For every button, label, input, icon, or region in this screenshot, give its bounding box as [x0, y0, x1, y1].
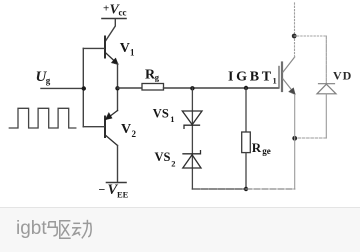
wire Rg to IGBT gate [164, 87, 279, 89]
wire output node to V2 emitter [117, 88, 119, 111]
label -VEE [99, 182, 129, 200]
wire V2 collector to -VEE [117, 146, 119, 183]
zener diode VS1 [182, 111, 202, 128]
node VD-emitter junction [292, 136, 297, 141]
svg-text:V: V [120, 41, 130, 56]
wire emitter lead down [294, 95, 296, 190]
wire collector to VD cathode [294, 35, 326, 37]
wire V1 emitter to output node [117, 64, 119, 88]
label +Vcc [103, 2, 127, 17]
svg-text:+: + [103, 2, 109, 14]
svg-text:1: 1 [273, 76, 277, 86]
label V1 [120, 41, 135, 58]
node output junction [115, 86, 119, 90]
svg-text:2: 2 [171, 158, 175, 168]
transistor V2 collector [106, 136, 118, 146]
VEE supply rail bar [107, 182, 127, 184]
wire collector lead up [294, 2, 296, 57]
node collector junction [292, 34, 297, 39]
wire emitter return rail right [246, 188, 295, 190]
svg-text:cc: cc [119, 8, 127, 18]
wire Rge branch lower [245, 153, 247, 189]
square wave input symbol [9, 108, 76, 128]
wire Rge branch upper [245, 88, 247, 132]
caption glyph 驱 [47, 221, 70, 239]
label V2 [121, 122, 137, 139]
svg-text:V: V [121, 122, 131, 137]
wire Vcc to V1 collector [106, 19, 116, 41]
label Rge [252, 140, 271, 156]
wire VD anode to emitter [295, 137, 327, 139]
label VS2 [155, 150, 176, 168]
wire emitter return rail left [192, 188, 246, 190]
label Ug [36, 69, 51, 86]
svg-text:g: g [46, 76, 51, 86]
wire V1 base [83, 47, 104, 49]
label Rg [145, 67, 160, 82]
svg-text:1: 1 [170, 114, 174, 124]
node Rge bottom junction [244, 187, 248, 191]
diode VD [317, 84, 336, 94]
wire input Ug [41, 87, 83, 89]
IGBT U1 gate bar [278, 67, 280, 89]
wire zener branch [191, 88, 193, 189]
wire V2 base [83, 126, 104, 128]
resistor Rge [242, 132, 251, 153]
caption glyph 动 [72, 220, 91, 239]
svg-text:IGBT: IGBT [228, 69, 274, 84]
svg-text:EE: EE [117, 189, 129, 199]
Vcc supply rail bar [102, 18, 126, 20]
zener diode VS2 [183, 151, 201, 168]
wire VD cathode lead [325, 36, 327, 84]
transistor V1 base bar [104, 37, 106, 58]
IGBT U1 emitter stroke with arrow [283, 79, 295, 95]
node zener branch junction [190, 86, 194, 90]
resistor Rg [142, 84, 164, 91]
IGBT U1 body bar [281, 63, 283, 92]
svg-text:ge: ge [262, 146, 271, 156]
transistor V2 base bar [104, 117, 106, 138]
node Rge top junction [244, 86, 248, 90]
svg-text:VS: VS [155, 150, 171, 164]
caption bar [0, 207, 360, 252]
svg-text:VD: VD [333, 69, 352, 83]
svg-text:VS: VS [153, 106, 169, 120]
node input junction [82, 86, 86, 90]
svg-text:igbt: igbt [16, 218, 47, 239]
label VD [333, 69, 352, 83]
transistor V1 emitter with arrow [106, 53, 119, 65]
svg-text:1: 1 [130, 48, 135, 58]
transistor V2 emitter with arrow [105, 111, 117, 120]
wire VD anode lead [325, 94, 327, 138]
svg-text:2: 2 [132, 129, 137, 139]
wire base rail [82, 48, 84, 126]
svg-text:−: − [99, 183, 106, 197]
label IGBT1 [228, 69, 277, 85]
svg-text:R: R [252, 140, 262, 155]
label VS1 [153, 106, 175, 124]
svg-text:g: g [155, 72, 160, 82]
IGBT U1 collector stroke [283, 57, 295, 72]
wire output to Rg [118, 87, 143, 89]
